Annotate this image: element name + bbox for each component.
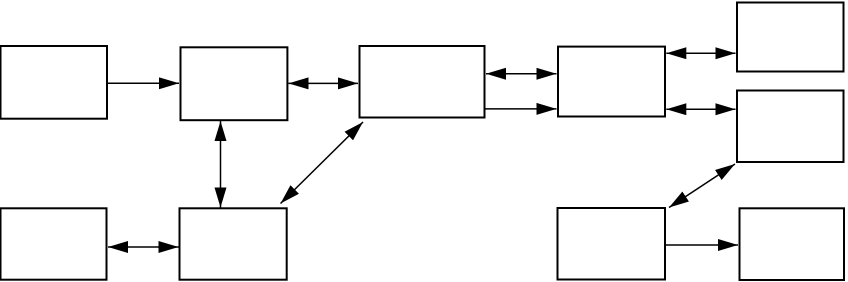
block bottom-left (G) bbox=[1, 208, 107, 279]
arrow D to E (double) bbox=[666, 52, 735, 54]
arrow B to H vertical (double) bbox=[220, 121, 222, 208]
block top-4 (D) bbox=[558, 47, 665, 117]
arrow G to H (double) bbox=[108, 246, 179, 248]
arrow C to D upper (double) bbox=[486, 73, 557, 75]
block right-top (E) bbox=[737, 3, 844, 72]
arrow F to I diagonal (double) bbox=[669, 164, 735, 208]
arrow C to H diagonal (double) bbox=[281, 122, 364, 204]
arrow I to J (single right) bbox=[666, 244, 738, 246]
arrow D to F (double) bbox=[666, 108, 735, 110]
block top-left (A) bbox=[1, 46, 108, 119]
arrow A to B (single right) bbox=[107, 82, 179, 84]
arrow B to C (double) bbox=[289, 82, 359, 84]
block bottom-right (J) bbox=[740, 208, 845, 280]
block right-middle (F) bbox=[737, 91, 844, 163]
block bottom-3 (I) bbox=[558, 208, 666, 280]
block top-2 (B) bbox=[181, 47, 288, 120]
block bottom-2 (H) bbox=[180, 208, 287, 279]
arrow C to D lower (single right) bbox=[485, 108, 557, 110]
block top-3 (C) bbox=[360, 46, 485, 118]
